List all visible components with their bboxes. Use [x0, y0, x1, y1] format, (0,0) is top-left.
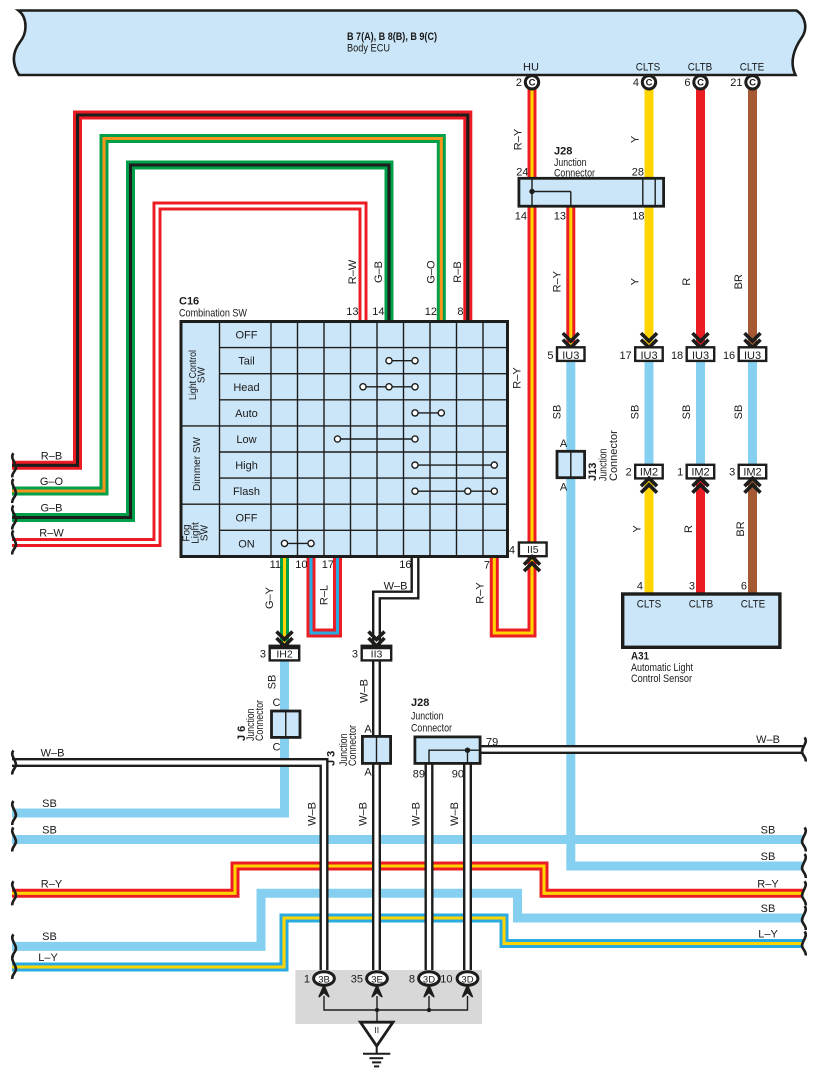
connector IU3 pin18 [671, 333, 714, 362]
svg-text:L–Y: L–Y [38, 952, 58, 964]
table pin numbers [270, 306, 490, 572]
svg-text:6: 6 [684, 77, 690, 89]
ground arrow 3B [319, 985, 329, 996]
svg-text:IM2: IM2 [640, 467, 658, 479]
wire W-B J28 pin79 to right edge [480, 745, 803, 754]
wire SB IU3-5 via J13 down then right to edge [571, 360, 803, 866]
svg-text:79: 79 [486, 737, 498, 749]
svg-text:II3: II3 [371, 649, 383, 661]
wire Y CLTS to IU3 [645, 75, 654, 347]
svg-text:1: 1 [304, 974, 310, 986]
svg-text:R–Y: R–Y [757, 878, 779, 890]
svg-text:3E: 3E [371, 974, 383, 985]
svg-text:SB: SB [42, 825, 57, 837]
svg-text:G–O: G–O [425, 260, 437, 284]
svg-text:3: 3 [352, 649, 358, 661]
svg-text:R–Y: R–Y [552, 270, 564, 292]
svg-text:R–Y: R–Y [475, 582, 487, 604]
svg-text:R–Y: R–Y [512, 367, 524, 389]
svg-text:Y: Y [630, 135, 642, 143]
svg-text:J28: J28 [554, 146, 572, 158]
svg-text:II: II [374, 1025, 379, 1035]
ground connector 3B [304, 972, 335, 986]
svg-text:W–B: W–B [359, 679, 371, 703]
svg-text:SB: SB [761, 903, 776, 915]
svg-text:2: 2 [626, 467, 632, 479]
wire W-B II3 via J3 to ground 3E [372, 660, 381, 972]
svg-text:12: 12 [425, 306, 437, 318]
svg-text:4: 4 [637, 581, 643, 593]
svg-text:SB: SB [267, 675, 279, 690]
wire W-B J28 pin89 to ground 3D [425, 764, 434, 973]
svg-text:II5: II5 [527, 544, 539, 556]
connector II5 pin4 [509, 543, 547, 572]
junction dot [427, 1008, 431, 1012]
earth ground symbol [363, 1046, 390, 1066]
svg-text:OFF: OFF [236, 512, 258, 524]
ground bus wiring [324, 996, 468, 1022]
svg-text:Body ECU: Body ECU [347, 43, 390, 55]
svg-text:1: 1 [677, 467, 683, 479]
svg-text:3: 3 [260, 649, 266, 661]
svg-text:18: 18 [632, 211, 644, 223]
svg-text:A: A [364, 767, 372, 779]
svg-text:W–B: W–B [358, 802, 370, 826]
switch contacts Auto row [412, 410, 445, 416]
svg-text:Low: Low [236, 434, 256, 446]
connector IM2 pin2 [626, 465, 663, 493]
svg-text:3D: 3D [423, 974, 435, 985]
connector IM2 pin3 [729, 465, 766, 493]
svg-text:Junction: Junction [411, 711, 444, 723]
svg-text:R–W: R–W [39, 528, 64, 540]
svg-text:J 3: J 3 [326, 751, 338, 766]
svg-text:CLTS: CLTS [636, 62, 661, 74]
switch contacts Flash row [412, 488, 498, 494]
junction connector J6 [236, 697, 300, 754]
wire W-B J28 pin90 to ground 3D [463, 764, 472, 973]
wire R-Y main HU to II5 and U-turn to pin 7 [494, 75, 532, 633]
wire SB full row [12, 835, 803, 844]
svg-text:SB: SB [630, 405, 642, 420]
svg-text:14: 14 [372, 306, 384, 318]
svg-text:CLTE: CLTE [740, 62, 765, 74]
svg-text:SB: SB [761, 825, 776, 837]
svg-text:W–B: W–B [756, 734, 780, 746]
wire R CLTB to IU3 [696, 75, 705, 347]
svg-text:G–Y: G–Y [264, 586, 276, 609]
svg-text:Connector: Connector [411, 723, 452, 735]
wire SB IU3-18 to IM2-1 [696, 360, 705, 466]
svg-text:CLTB: CLTB [688, 62, 713, 74]
switch contacts ON row [281, 540, 314, 546]
wire BR CLTE to IU3 [748, 75, 757, 347]
svg-text:CLTB: CLTB [689, 599, 714, 611]
switch contacts Head row [360, 384, 418, 390]
connector II3 pin3 [352, 632, 391, 661]
svg-text:35: 35 [351, 974, 363, 986]
wire SB IH2 via J6 down then left to edge [12, 660, 285, 813]
wire R-L U-loop pin10 to pin17 [311, 557, 338, 634]
wire W-B pin16 to II3 [377, 557, 416, 646]
svg-text:Dimmer SW: Dimmer SW [192, 437, 203, 491]
svg-text:C: C [697, 78, 704, 89]
svg-text:W–B: W–B [384, 581, 408, 593]
svg-text:A31: A31 [631, 651, 649, 663]
wire BR IM2 to A31 pin6 [748, 481, 757, 594]
svg-text:SB: SB [761, 851, 776, 863]
wire R-B loop (left edge to combination SW pin 8) [12, 115, 468, 465]
torn wire ends left [12, 453, 16, 979]
junction dot [375, 1008, 379, 1012]
ground shield box [295, 970, 482, 1024]
svg-text:Y: Y [630, 277, 642, 285]
svg-text:90: 90 [452, 769, 464, 781]
svg-text:SB: SB [552, 405, 564, 420]
svg-text:24: 24 [516, 167, 528, 179]
svg-text:R–L: R–L [319, 585, 331, 605]
svg-text:G–B: G–B [40, 503, 62, 515]
svg-text:R–Y: R–Y [513, 128, 525, 150]
svg-text:IU3: IU3 [640, 350, 657, 362]
torn wire ends right [802, 738, 806, 956]
svg-text:Head: Head [233, 382, 259, 394]
svg-text:IM2: IM2 [691, 467, 709, 479]
svg-text:16: 16 [399, 559, 411, 571]
connector IU3 pin17 [619, 333, 662, 362]
svg-text:R–B: R–B [452, 261, 464, 282]
svg-text:A: A [560, 482, 568, 494]
svg-text:6: 6 [741, 581, 747, 593]
svg-text:10: 10 [440, 974, 452, 986]
svg-text:3: 3 [729, 467, 735, 479]
svg-text:16: 16 [723, 350, 735, 362]
svg-text:L–Y: L–Y [758, 929, 778, 941]
svg-text:Combination SW: Combination SW [179, 308, 247, 320]
svg-text:C: C [273, 697, 281, 709]
svg-text:R–Y: R–Y [41, 878, 63, 890]
wire W-B left edge to ground 3B [12, 763, 324, 973]
svg-text:10: 10 [295, 559, 307, 571]
ground arrow 3D-2 [463, 985, 473, 996]
svg-text:89: 89 [413, 769, 425, 781]
wire labels rotated upper section [347, 128, 747, 536]
svg-text:High: High [235, 460, 258, 472]
ground arrow 3E [372, 985, 382, 996]
svg-text:8: 8 [409, 974, 415, 986]
svg-text:11: 11 [270, 559, 281, 571]
svg-text:18: 18 [671, 350, 683, 362]
svg-text:SW: SW [197, 366, 208, 383]
svg-text:R–W: R–W [347, 259, 359, 284]
combination switch C16 table [179, 296, 508, 557]
svg-text:IU3: IU3 [562, 350, 579, 362]
ground connector 3D [409, 972, 440, 986]
ground triangle II [360, 1022, 393, 1046]
svg-text:28: 28 [632, 167, 644, 179]
connector IM2 pin1 [677, 465, 714, 493]
svg-text:13: 13 [346, 306, 358, 318]
connector IU3 pin16 [723, 333, 766, 362]
svg-text:C: C [273, 742, 281, 754]
ground arrow 3D [424, 985, 434, 996]
svg-text:IU3: IU3 [692, 350, 709, 362]
junction connector J13 [557, 430, 620, 494]
ground connector 3E [351, 972, 388, 986]
svg-text:2: 2 [516, 77, 522, 89]
svg-text:BR: BR [735, 521, 747, 536]
svg-text:SB: SB [42, 931, 57, 943]
Body ECU banner [14, 11, 805, 76]
svg-text:W–B: W–B [449, 802, 461, 826]
wire R IM2 to A31 pin3 [696, 481, 705, 594]
wire G-B loop (left edge to pin 14) [12, 165, 389, 518]
svg-text:3B: 3B [318, 974, 330, 985]
svg-text:IH2: IH2 [276, 649, 293, 661]
Body ECU pin circles [516, 76, 759, 89]
wire R-W loop (left edge to pin 13) [12, 206, 363, 543]
junction connector J28 (bottom) [411, 697, 498, 781]
junction connector J3 [326, 724, 391, 779]
wire SB lower left to mid to right [12, 893, 803, 946]
svg-text:Control Sensor: Control Sensor [631, 673, 692, 685]
svg-text:SW: SW [200, 524, 211, 541]
svg-text:W–B: W–B [41, 748, 65, 760]
switch contacts Low row [334, 436, 418, 442]
wire R-Y branch J28 pin13 to IU3 [566, 206, 575, 347]
svg-text:BR: BR [733, 274, 745, 289]
wire R-Y bottom row [12, 866, 803, 893]
junction connector J28 (top) [515, 146, 664, 223]
svg-text:W–B: W–B [410, 802, 422, 826]
wire G-Y pin11 to IH2 [280, 557, 289, 646]
svg-text:J28: J28 [411, 697, 429, 709]
svg-text:B 7(A), B 8(B), B 9(C): B 7(A), B 8(B), B 9(C) [347, 31, 437, 43]
svg-text:4: 4 [509, 545, 515, 557]
svg-text:SB: SB [42, 798, 57, 810]
svg-text:ON: ON [238, 538, 255, 550]
svg-text:C: C [529, 78, 536, 89]
svg-text:W–B: W–B [306, 802, 318, 826]
svg-text:IU3: IU3 [744, 350, 761, 362]
svg-text:IM2: IM2 [743, 467, 761, 479]
svg-text:Y: Y [632, 525, 644, 533]
wire SB IU3-17 to IM2-2 [645, 360, 654, 467]
wire SB IU3-16 to IM2-3 [748, 360, 757, 466]
svg-text:SB: SB [733, 405, 745, 420]
svg-text:R: R [683, 525, 695, 533]
svg-text:R: R [681, 278, 693, 286]
connector IU3 pin5 [547, 333, 584, 362]
svg-text:C16: C16 [179, 296, 199, 308]
wire G-O loop (left edge to pin 12) [12, 139, 441, 492]
svg-text:Connector: Connector [254, 700, 266, 741]
svg-text:17: 17 [322, 559, 334, 571]
svg-text:8: 8 [457, 306, 463, 318]
svg-text:HU: HU [523, 62, 539, 74]
svg-text:CLTS: CLTS [637, 599, 662, 611]
svg-text:OFF: OFF [236, 330, 258, 342]
svg-text:C: C [749, 78, 756, 89]
svg-text:17: 17 [619, 350, 631, 362]
svg-text:R–B: R–B [41, 451, 62, 463]
svg-text:SB: SB [681, 405, 693, 420]
ground connector 3D-2 [440, 972, 478, 986]
svg-text:CLTE: CLTE [741, 599, 766, 611]
svg-text:Connector: Connector [347, 725, 359, 766]
svg-text:5: 5 [547, 350, 553, 362]
switch contacts Tail row [386, 358, 418, 364]
svg-text:A: A [364, 724, 372, 736]
svg-text:Connector: Connector [608, 430, 620, 481]
horizontal wire labels [38, 451, 780, 965]
svg-text:G–B: G–B [373, 261, 385, 283]
svg-text:C: C [646, 78, 653, 89]
svg-text:21: 21 [730, 77, 742, 89]
switch contacts High row [412, 462, 498, 468]
wire L-Y bottom row [12, 918, 803, 967]
svg-text:Tail: Tail [238, 356, 255, 368]
svg-text:13: 13 [554, 211, 566, 223]
svg-text:Auto: Auto [235, 408, 258, 420]
svg-text:7: 7 [484, 560, 490, 572]
svg-text:3: 3 [689, 581, 695, 593]
svg-text:Flash: Flash [233, 486, 260, 498]
svg-text:14: 14 [515, 211, 527, 223]
svg-text:G–O: G–O [40, 476, 64, 488]
svg-text:A: A [560, 438, 568, 450]
svg-text:3D: 3D [461, 974, 473, 985]
A31 automatic light control sensor [623, 581, 780, 686]
connector IH2 pin3 [260, 632, 299, 661]
wire Y IM2 to A31 pin4 [645, 481, 654, 594]
wire labels rotated lower section [264, 582, 487, 826]
svg-text:Connector: Connector [554, 168, 595, 180]
svg-text:4: 4 [633, 77, 639, 89]
